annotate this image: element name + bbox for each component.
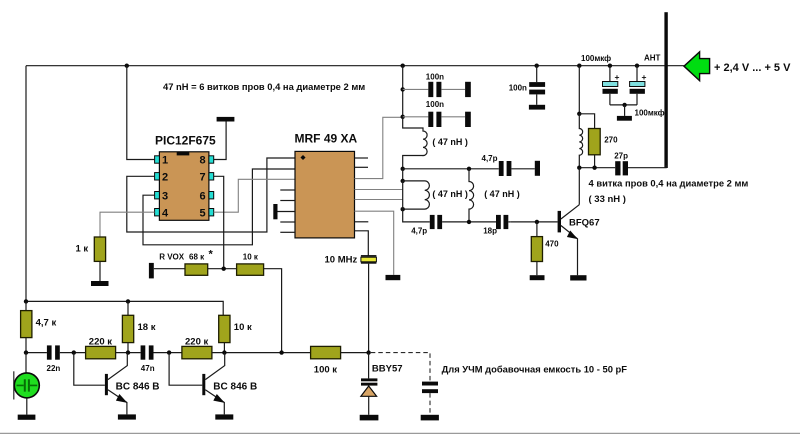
resistor 10к (audio) xyxy=(219,315,230,342)
svg-text:100мкф: 100мкф xyxy=(581,54,611,63)
pin 4 xyxy=(155,209,160,216)
capacitor 100n (first) xyxy=(403,88,429,90)
svg-text:47n: 47n xyxy=(141,364,155,373)
svg-text:10 MHz: 10 MHz xyxy=(325,255,358,266)
svg-text:18p: 18p xyxy=(483,227,497,236)
wire: MRF pin R6 to ground (grey) xyxy=(355,211,394,275)
svg-text:MRF 49 XA: MRF 49 XA xyxy=(295,132,358,146)
svg-text:BC 846 B: BC 846 B xyxy=(116,381,160,392)
MRF pin L5 stub xyxy=(280,200,295,202)
wire: rail bottom corner to 4,7p bottom xyxy=(403,209,430,222)
capacitor 27p xyxy=(615,161,620,175)
wire: MRF pin R5 to RF rail xyxy=(355,199,403,201)
svg-text:+: + xyxy=(642,72,647,82)
svg-text:Для УЧМ добавочная емкость 10: Для УЧМ добавочная емкость 10 - 50 pF xyxy=(442,363,628,374)
svg-text:270: 270 xyxy=(604,135,618,144)
svg-text:BFQ67: BFQ67 xyxy=(569,218,600,229)
svg-text:100мкф: 100мкф xyxy=(635,108,665,117)
svg-text:+ 2,4 V ... + 5 V: + 2,4 V ... + 5 V xyxy=(714,62,791,74)
capacitor 4,7p (bottom) xyxy=(430,215,435,229)
wire: MRF pin R3 to RF rail (grey) xyxy=(355,117,403,178)
resistor 100к xyxy=(311,346,341,358)
wire: pin 5 to MRF pin L3 xyxy=(214,179,295,212)
capacitor (additional 10-50 pF) xyxy=(422,382,438,386)
node: rail junction collector branch xyxy=(577,63,581,67)
wire: dashed branch for added capacitance xyxy=(371,353,430,382)
wire: collector riser BFQ67 xyxy=(578,168,580,205)
ground: BFQ67 emitter xyxy=(570,275,586,280)
MRF pin R7 stub xyxy=(355,221,369,223)
resistor R VOX 68к xyxy=(185,264,208,275)
ground: microphone xyxy=(18,415,36,420)
resistor 470 xyxy=(536,222,538,237)
svg-text:100n: 100n xyxy=(426,100,444,109)
capacitor 47n xyxy=(141,345,146,359)
microphone (electret) xyxy=(25,353,27,373)
svg-text:220 к: 220 к xyxy=(89,336,112,347)
wire: 10к to signal line xyxy=(264,269,282,353)
terminal bar R VOX xyxy=(149,263,154,279)
svg-text:4,7p: 4,7p xyxy=(482,154,498,163)
svg-text:27p: 27p xyxy=(614,152,628,161)
resistor 4,7к xyxy=(25,301,27,310)
svg-text:100n: 100n xyxy=(426,73,444,82)
ic U2 pin1 diamond mark xyxy=(300,155,305,160)
MRF pin L8 stub xyxy=(280,231,295,233)
ground: varicap xyxy=(360,415,379,421)
svg-text:18 к: 18 к xyxy=(138,322,156,333)
transistor Q3 BFQ67 xyxy=(558,211,561,233)
wire: rail to pin 1 xyxy=(127,66,155,160)
MRF pin R2 stub xyxy=(355,166,369,168)
wire: pin 8 to supply tap xyxy=(214,121,226,159)
wire: crystal down to varicap node xyxy=(368,264,370,353)
ic U2 MRF 49 XA body xyxy=(295,151,355,238)
node: rail junction RF rail xyxy=(401,63,405,67)
ground: MRF pin R6 xyxy=(386,275,401,280)
wire: pin 4 to resistor 1к xyxy=(100,212,155,237)
wire: pin 2 to MRF pin L1 xyxy=(127,158,295,232)
wire: +V top rail xyxy=(26,65,684,67)
supply arrow (green, pointing left) xyxy=(684,52,710,81)
svg-text:АНТ: АНТ xyxy=(644,53,661,62)
svg-text:+: + xyxy=(615,72,620,82)
svg-text:PIC12F675: PIC12F675 xyxy=(155,133,216,147)
wire xyxy=(208,268,237,270)
svg-text:2: 2 xyxy=(162,172,168,184)
wire: electrolytics common xyxy=(610,104,637,106)
resistor 18к xyxy=(127,301,129,315)
svg-text:6: 6 xyxy=(200,190,206,202)
svg-text:4,7p: 4,7p xyxy=(411,227,427,236)
wire: audio signal line xyxy=(26,352,47,354)
resistor 1к xyxy=(94,237,105,261)
RF rail vertical xyxy=(402,66,404,117)
ic U1 notch xyxy=(177,152,190,156)
MRF pin L7 stub xyxy=(280,221,295,223)
wire: pin 7 down to R VOX node xyxy=(214,176,224,268)
wire: base node to transistor xyxy=(510,221,557,223)
node: rail junction cap2 xyxy=(635,63,639,67)
svg-text:47 nH = 6 витков пров 0,4 на д: 47 nH = 6 витков пров 0,4 на диаметре 2 … xyxy=(163,81,365,92)
MRF pin R1 stub xyxy=(355,157,369,159)
svg-text:10 к: 10 к xyxy=(234,322,252,333)
inductor L_out 4 витка (33 nH) xyxy=(579,114,582,168)
ground: 1к resistor xyxy=(91,281,109,286)
wire: 27p to antenna line xyxy=(628,165,666,168)
svg-text:470: 470 xyxy=(545,239,559,248)
svg-text:1 к: 1 к xyxy=(76,244,89,255)
svg-text:*: * xyxy=(209,249,214,261)
svg-text:BBY57: BBY57 xyxy=(372,364,403,375)
svg-text:4,7 к: 4,7 к xyxy=(36,317,57,328)
svg-text:5: 5 xyxy=(200,207,206,219)
svg-text:R VOX: R VOX xyxy=(159,253,185,262)
pin 7 xyxy=(209,173,214,180)
pin 3 xyxy=(155,192,160,199)
pin 2 xyxy=(155,173,160,180)
inductor L1 (47 nH) in rail xyxy=(403,117,427,169)
svg-text:4: 4 xyxy=(162,207,169,219)
wire: pin 3 to MRF pin L2 xyxy=(143,169,295,245)
resistor 10к (VOX) xyxy=(237,264,264,275)
wire: branch to 270 resistor top xyxy=(579,114,594,129)
wire: rail node to 4,7p top xyxy=(401,167,405,171)
wire: MRF pin R4 to RF rail xyxy=(355,189,403,191)
electrolytic capacitor C_el1 100мкф xyxy=(609,66,611,82)
wire: left vertical rail xyxy=(25,66,27,302)
node: rail junction at pin1 drop xyxy=(125,63,129,67)
wire: rail to RF choke branch xyxy=(578,66,580,114)
node: rail junction cap1 xyxy=(608,63,612,67)
svg-text:BC 846 B: BC 846 B xyxy=(213,381,257,392)
capacitor 100n (third, vertical) xyxy=(536,66,538,82)
inductor L2 (47 nH) in rail xyxy=(402,169,404,181)
resistor 270 xyxy=(589,129,601,155)
pin 5 xyxy=(209,209,214,216)
transistor Q2 BC 846 B xyxy=(169,353,202,386)
svg-text:1: 1 xyxy=(162,155,168,167)
svg-text:100 к: 100 к xyxy=(314,364,337,375)
svg-text:7: 7 xyxy=(200,172,206,184)
MRF pin L6 stub with terminal bar xyxy=(278,211,296,213)
pin 1 xyxy=(155,156,160,163)
svg-text:220 к: 220 к xyxy=(185,336,208,347)
svg-text:( 47 nH ): ( 47 nH ) xyxy=(432,189,468,199)
wire: audio supply rail xyxy=(26,301,223,315)
rail segment behind L2 xyxy=(402,181,404,209)
pin 6 xyxy=(209,192,214,199)
ground: Q1 emitter xyxy=(118,414,136,419)
ground: electrolytics xyxy=(617,116,632,121)
svg-text:8: 8 xyxy=(200,155,206,167)
svg-text:( 33 nH ): ( 33 nH ) xyxy=(589,194,626,205)
antenna line АНТ (thick vertical) xyxy=(664,12,667,168)
capacitor 18p xyxy=(496,215,501,229)
ground: additional capacitor xyxy=(421,415,439,421)
wire xyxy=(154,268,185,270)
resistor 220к (first) xyxy=(86,346,116,358)
svg-text:22n: 22n xyxy=(47,364,61,373)
supply tap bar above pin 8 xyxy=(217,117,235,122)
capacitor 100n (second) xyxy=(403,116,429,118)
wire: collector node row xyxy=(579,167,615,169)
capacitor 22n xyxy=(47,345,52,359)
transistor Q1 BC 846 B xyxy=(74,353,105,386)
node: rail junction 100n xyxy=(535,63,539,67)
inductor L3 (47 nH) parallel xyxy=(469,169,474,222)
svg-text:3: 3 xyxy=(162,190,168,202)
ic U1 PIC12F675 body xyxy=(159,152,209,221)
svg-text:( 47 nH ): ( 47 nH ) xyxy=(484,189,520,199)
pin 8 xyxy=(209,156,214,163)
svg-text:68 к: 68 к xyxy=(189,253,205,262)
bottom border line xyxy=(0,432,800,434)
MRF pin L4 stub xyxy=(280,189,295,191)
svg-text:100n: 100n xyxy=(509,83,527,92)
ground: Q2 emitter xyxy=(215,414,233,419)
wire: MRF pin R8 to crystal xyxy=(355,231,369,256)
electrolytic capacitor C_el2 100мкф xyxy=(636,66,638,82)
resistor 220к (second) xyxy=(182,346,212,358)
svg-text:10 к: 10 к xyxy=(243,253,259,262)
ground: 470 resistor xyxy=(530,275,545,280)
svg-text:( 47 nH ): ( 47 nH ) xyxy=(432,137,468,147)
svg-text:4 витка пров 0,4 на диаметре 2: 4 витка пров 0,4 на диаметре 2 мм xyxy=(589,178,749,189)
capacitor 4,7p (top) xyxy=(499,161,504,176)
